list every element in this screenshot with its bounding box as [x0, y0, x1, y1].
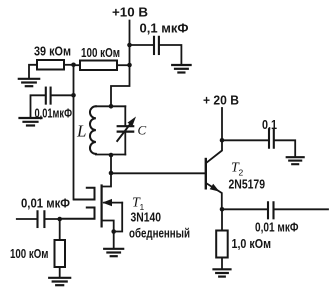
wire 0.1uF branch [130, 44, 154, 46]
inductor L label [76, 122, 86, 141]
wire bias line down [74, 65, 95, 200]
node junction dot input [57, 217, 62, 222]
capacitor C stub top [124, 106, 126, 125]
capacitor C plates [118, 126, 134, 131]
svg-text:39 кОм: 39 кОм [34, 44, 71, 59]
wire input lead [17, 218, 37, 220]
node junction dot bypass tap [127, 43, 132, 48]
resistor 1.0k value label [232, 236, 272, 251]
transistor T1 designator [132, 196, 145, 213]
wire tank top rail [96, 105, 125, 107]
svg-text:1,0 кОм: 1,0 кОм [232, 236, 272, 251]
wire emitter node to output cap [222, 208, 267, 210]
ground 39k [19, 79, 39, 86]
capacitor 0.1uF top value label [140, 21, 189, 36]
node junction dot tank bottom [109, 153, 114, 158]
wire tank bottom to drain node [110, 155, 112, 174]
wire 0.1 cap to ground [275, 140, 295, 156]
ground 0.1 cap [287, 157, 304, 164]
wire 39k right lead [64, 64, 74, 66]
svg-text:100 кОм: 100 кОм [81, 45, 120, 60]
ground bypass [20, 118, 42, 126]
capacitor 0.01uF input plates [38, 211, 45, 227]
node junction dot divider [71, 63, 76, 68]
wire 100k left lead [74, 64, 81, 66]
node junction dot drain [109, 171, 114, 176]
node +10V label [112, 5, 148, 20]
wire cap to ground [160, 45, 182, 64]
capacitor 0.01uF output plates [268, 202, 274, 218]
inductor L [90, 106, 96, 154]
svg-text:+ 20 В: + 20 В [203, 93, 239, 108]
wire collector node to 0.1 cap [222, 139, 268, 141]
wire T1 source lead [102, 221, 114, 232]
capacitor C label [138, 123, 147, 138]
wire emitter node down to resistor [221, 209, 223, 230]
resistor 100k top value label [81, 45, 120, 60]
wire bypass cap right lead [52, 94, 74, 96]
svg-text:L: L [76, 122, 86, 141]
transistor T1 gate1 electrode [74, 188, 95, 200]
node junction dot source [111, 229, 116, 234]
wire source to ground [113, 232, 115, 248]
wire 39k left lead to ground [29, 65, 37, 78]
transistor T1 note depletion [129, 226, 190, 241]
transistor T2 designator [231, 161, 244, 178]
capacitor C trimmer arrow [117, 117, 136, 142]
capacitor 0.1 right value label [262, 117, 277, 132]
node junction dot bypass cap [71, 93, 76, 98]
wire +20V feed [221, 108, 223, 140]
svg-text:+10 В: +10 В [112, 5, 148, 20]
transistor T1 substrate arrow [102, 199, 122, 232]
wire 100k right lead [117, 64, 130, 66]
transistor T1 part number 3N140 [131, 210, 162, 225]
transistor T1 gate2 electrode [60, 208, 95, 219]
resistor 39k body [37, 60, 64, 70]
node junction dot collector [220, 138, 225, 143]
resistor 100k top body [80, 61, 117, 71]
svg-text:0,1 мкФ: 0,1 мкФ [140, 21, 189, 36]
node junction dot emitter [220, 207, 225, 212]
svg-text:0,01мкФ: 0,01мкФ [35, 106, 73, 121]
wire input cap to gate node [46, 218, 61, 220]
wire output lead [275, 208, 329, 210]
node +20V label [203, 93, 239, 108]
wire T1 drain lead [103, 173, 112, 187]
svg-text:3N140: 3N140 [131, 210, 162, 225]
ground T1 source [104, 249, 123, 256]
svg-text:C: C [138, 123, 147, 138]
capacitor C stub bottom [124, 133, 126, 155]
node junction dot tank top [109, 104, 114, 109]
svg-text:100 кОм: 100 кОм [10, 246, 49, 261]
capacitor 0.01uF bypass value label [35, 106, 73, 121]
transistor T2 collector lead [207, 140, 222, 162]
capacitor 0.01uF output value label [255, 220, 299, 235]
transistor T2 base bar [205, 159, 207, 188]
ground top-right [172, 65, 190, 73]
node junction dot 100k to rail [127, 63, 132, 68]
svg-text:обедненный: обедненный [129, 226, 190, 241]
capacitor 0.01uF bypass plates [46, 88, 51, 104]
ground emitter resistor [214, 269, 231, 276]
wire drain node to T2 base [111, 172, 205, 174]
wire +10V vertical feed [111, 21, 130, 107]
wire tank bottom rail [96, 154, 125, 156]
resistor 39k value label [34, 44, 71, 59]
wire 1.0k to ground [221, 258, 223, 269]
transistor T2 emitter lead with arrow [207, 184, 222, 210]
capacitor 0.1uF top plates [154, 37, 159, 54]
svg-text:2N5179: 2N5179 [229, 177, 266, 192]
resistor 1.0k body [216, 231, 228, 258]
wire resistor to ground [59, 267, 61, 277]
resistor 100k input value label [10, 246, 49, 261]
svg-text:0,01 мкФ: 0,01 мкФ [255, 220, 299, 235]
transistor T1 channel [100, 186, 102, 227]
ground input resistor [49, 278, 70, 285]
resistor 100k input body [55, 240, 66, 267]
svg-text:0,01 мкФ: 0,01 мкФ [21, 196, 70, 211]
capacitor 0.1 right plates [269, 129, 274, 148]
transistor T2 part number 2N5179 [229, 177, 266, 192]
wire input node down to resistor [59, 219, 61, 240]
wire bypass cap left to ground [31, 95, 45, 116]
capacitor 0.01uF input value label [21, 196, 70, 211]
